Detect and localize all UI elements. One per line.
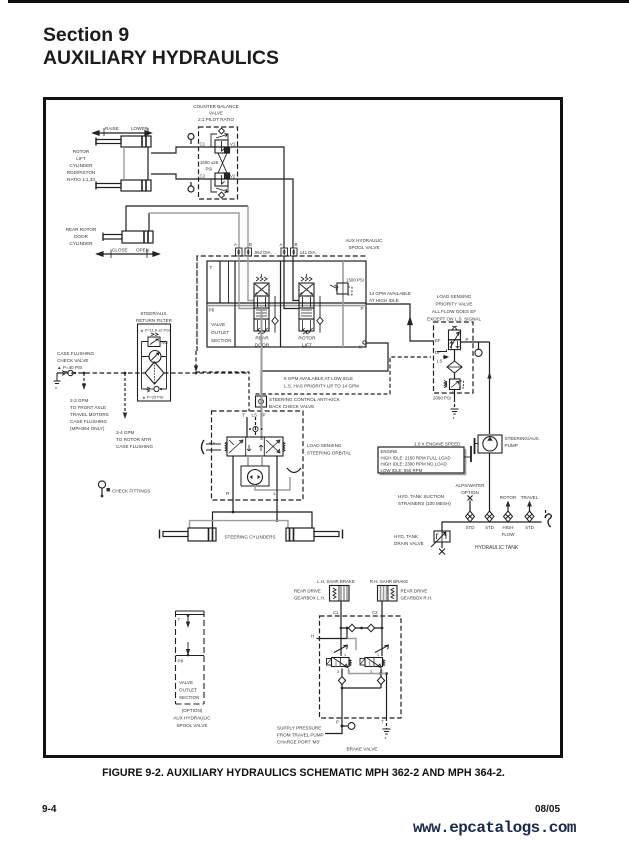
wire H gray	[347, 639, 356, 651]
svg-text:1.0 X ENGINE SPEED: 1.0 X ENGINE SPEED	[414, 442, 461, 447]
svg-text:STD: STD	[466, 525, 475, 530]
svg-text:DF: DF	[435, 350, 441, 355]
svg-text:B: B	[249, 242, 252, 247]
svg-text:LIFT: LIFT	[302, 343, 312, 349]
label A B .062 DIA	[234, 242, 272, 255]
svg-text:P8: P8	[178, 659, 184, 664]
label 14 GPM	[369, 291, 411, 303]
label case flushing check valve	[57, 351, 94, 370]
wire alps stem	[469, 501, 471, 512]
wire V1 to rotor-lift A	[238, 147, 284, 248]
svg-text:*: *	[453, 417, 455, 423]
label A B .141 DIA	[280, 242, 317, 255]
svg-text:STEER/AUX.: STEER/AUX.	[140, 311, 167, 316]
svg-text:14 GPM AVAILABLE: 14 GPM AVAILABLE	[369, 291, 411, 296]
spool rear door	[254, 274, 269, 334]
svg-text:L: L	[274, 491, 277, 496]
anti-kickback check valve	[256, 396, 267, 407]
steering wheel	[202, 440, 222, 454]
wire L to cylinders	[276, 456, 278, 521]
svg-text:CHECK FITTINGS: CHECK FITTINGS	[112, 489, 150, 494]
svg-text:C2: C2	[372, 610, 378, 615]
svg-text:ROD/PISTON: ROD/PISTON	[67, 170, 96, 175]
svg-text:R.H. SAHR BRAKE: R.H. SAHR BRAKE	[370, 579, 408, 584]
svg-text:C1: C1	[200, 142, 206, 147]
tank symbol left	[54, 373, 61, 393]
option outlet box	[176, 611, 205, 704]
svg-text:AT HIGH IDLE: AT HIGH IDLE	[369, 298, 399, 303]
svg-text:T: T	[242, 413, 245, 418]
drain branch to front axle	[82, 373, 86, 390]
solenoid valve RH pin labels	[370, 653, 383, 674]
LS port circle	[249, 426, 263, 431]
svg-text:H: H	[311, 634, 314, 639]
label hyd tank drain valve	[394, 534, 424, 546]
T column inner line	[228, 261, 230, 303]
label VALVE OUTLET SECTION	[211, 322, 231, 343]
label load sensing steering orbital	[307, 443, 352, 456]
wire C2	[381, 601, 383, 656]
svg-text:STEERING CYLINDERS: STEERING CYLINDERS	[224, 535, 275, 540]
svg-text:STEERING ORBITAL: STEERING ORBITAL	[307, 451, 352, 456]
svg-text:P: P	[336, 720, 339, 725]
port drop rear door B	[248, 256, 254, 301]
brake RH	[378, 586, 398, 602]
svg-text:CASE FLUSHING: CASE FLUSHING	[116, 444, 153, 449]
svg-text:P: P	[263, 413, 266, 418]
label steering control anti-kick	[269, 397, 341, 409]
port drop rear door A	[239, 256, 254, 309]
schematic frame	[45, 99, 562, 757]
label rear drive gearbox LH	[294, 589, 325, 601]
arrowhead drain	[194, 366, 198, 373]
wire steering P gray	[261, 306, 263, 440]
svg-text:B: B	[295, 242, 298, 247]
svg-text:STEERING/AUX.: STEERING/AUX.	[505, 436, 540, 441]
svg-text:(MPH364 ONLY): (MPH364 ONLY)	[70, 426, 105, 431]
svg-text:SECTION: SECTION	[179, 695, 199, 700]
svg-text:VALVE: VALVE	[211, 322, 225, 327]
svg-text:STD: STD	[525, 525, 534, 530]
T tank drain	[383, 718, 391, 743]
svg-text:T: T	[210, 265, 213, 270]
svg-text:C1: C1	[333, 610, 339, 615]
svg-text:ALL FLOW GOES EF: ALL FLOW GOES EF	[432, 309, 476, 314]
check valve rotor lift	[317, 296, 323, 333]
engine spec box shadow	[380, 449, 466, 475]
label CLOSE/OPEN	[112, 248, 149, 253]
plug X alps	[468, 496, 473, 501]
svg-text:REAR ROTOR: REAR ROTOR	[66, 227, 97, 232]
cylinder rotor-lift lower	[96, 180, 151, 191]
wire lift cylinder to C1	[151, 147, 199, 153]
raise/lower arrow	[93, 128, 151, 136]
wire pump suction	[489, 453, 491, 511]
svg-text:1: 1	[344, 653, 346, 657]
wire DF stub	[437, 350, 447, 352]
steering valve body	[227, 437, 283, 456]
svg-text:3-4 GPM: 3-4 GPM	[116, 430, 135, 435]
engine spec box	[378, 447, 464, 473]
solenoid valve RH	[360, 658, 385, 668]
svg-text:ROTOR: ROTOR	[500, 495, 517, 500]
cylinder rotor-lift upper	[96, 136, 151, 147]
svg-text:CHARGE PORT 'M3': CHARGE PORT 'M3'	[277, 740, 320, 745]
brake LH	[330, 586, 350, 602]
svg-text:BRAKE VALVE: BRAKE VALVE	[347, 747, 378, 752]
wire RH gray jog	[349, 668, 387, 674]
svg-text:REAR DRIVE: REAR DRIVE	[401, 589, 428, 594]
svg-text:CASE FLUSHING: CASE FLUSHING	[57, 351, 94, 356]
valve block dashed outline	[197, 256, 366, 351]
wire R to cylinders	[232, 456, 234, 512]
orifice block rotor lift	[281, 248, 297, 256]
steering cylinder left	[160, 528, 217, 541]
wire lift cylinder to C2	[151, 174, 199, 179]
svg-text:▲ P=11.6 ±2 PSI: ▲ P=11.6 ±2 PSI	[140, 328, 170, 333]
close/open arrow	[97, 250, 159, 259]
svg-text:1500 PSI: 1500 PSI	[346, 278, 364, 283]
wire supply pressure	[325, 726, 342, 734]
svg-text:LOAD SENSING: LOAD SENSING	[307, 443, 342, 448]
svg-text:HYD. TANK: HYD. TANK	[394, 534, 419, 539]
svg-text:SECTION: SECTION	[211, 338, 231, 343]
svg-text:CLOSE: CLOSE	[112, 248, 128, 253]
svg-text:ROTOR: ROTOR	[73, 149, 90, 154]
svg-text:*: *	[385, 737, 387, 743]
svg-text:STEERING CONTROL ANTI-KICK: STEERING CONTROL ANTI-KICK	[269, 397, 341, 402]
svg-text:T: T	[178, 617, 181, 622]
spool rotor lift	[299, 274, 314, 334]
pilot arc	[287, 468, 301, 473]
label STEER/AUX RETURN FILTER	[136, 311, 173, 323]
svg-text:2:1 PILOT RATIO: 2:1 PILOT RATIO	[198, 117, 234, 122]
svg-text:TO FRONT AXLE: TO FRONT AXLE	[70, 405, 106, 410]
svg-text:LS: LS	[437, 359, 442, 364]
wire pump riser	[487, 342, 491, 434]
steering valve springs	[225, 442, 285, 452]
tank line end tick	[545, 510, 547, 519]
svg-text:LOAD SENSING: LOAD SENSING	[437, 294, 472, 299]
filter bypass valve	[148, 337, 160, 347]
label valve outlet section option	[179, 680, 199, 700]
svg-text:VALVE: VALVE	[179, 680, 193, 685]
priority valve spool	[449, 327, 461, 350]
CB valve lower element	[211, 173, 230, 198]
svg-text:VALVE: VALVE	[209, 111, 223, 116]
svg-text:HYD. TANK SUCTION: HYD. TANK SUCTION	[398, 494, 444, 499]
label rear drive gearbox RH	[401, 589, 433, 601]
label T P8 option	[178, 617, 184, 664]
label counter balance valve	[193, 104, 238, 122]
CB pilot cross wires	[218, 153, 227, 173]
label P X	[359, 306, 364, 351]
T return vertical rotor lift	[280, 261, 282, 347]
X port circle	[363, 341, 366, 344]
label T LS P	[242, 413, 266, 418]
gauge port lower	[188, 182, 194, 192]
solenoid valve LH	[327, 658, 352, 668]
wire check bus	[342, 687, 381, 689]
steering cylinder right	[286, 528, 343, 541]
label alps/water option	[455, 483, 485, 495]
svg-text:2-3 GPM: 2-3 GPM	[70, 398, 89, 403]
wire door cylinder to B port	[126, 206, 248, 231]
port drop rotor lift B	[293, 256, 299, 301]
label steering/aux pump	[505, 436, 540, 448]
label STD STD HIGH FLOW STD	[466, 525, 534, 537]
label AUX HYDRAULIC SPOOL VALVE	[345, 238, 383, 250]
svg-text:NO: NO	[162, 340, 169, 345]
LS pilot arrow	[443, 355, 448, 358]
filter check valve	[147, 386, 162, 392]
svg-text:*: *	[55, 387, 57, 393]
wire C2-V2	[199, 178, 238, 180]
H bus dot	[346, 627, 349, 630]
main relief valve 1500 psi	[330, 261, 352, 347]
svg-text:(OPTION): (OPTION)	[182, 708, 203, 713]
svg-text:FROM TRAVEL PUMP: FROM TRAVEL PUMP	[277, 733, 324, 738]
svg-text:FLOW: FLOW	[502, 532, 516, 537]
svg-text:PSI: PSI	[205, 167, 212, 172]
svg-text:V1: V1	[230, 142, 236, 147]
svg-text:HIGH: HIGH	[503, 525, 514, 530]
case flushing drain line dashed	[57, 372, 249, 374]
svg-text:ENGINE: ENGINE	[381, 449, 398, 454]
label 5 GPM available	[284, 376, 359, 389]
svg-text:TRAVEL MOTORS: TRAVEL MOTORS	[70, 412, 109, 417]
svg-text:CHECK VALVE: CHECK VALVE	[57, 358, 89, 363]
valve block body	[207, 261, 366, 347]
svg-text:LOW IDLE: 850 RPM: LOW IDLE: 850 RPM	[381, 468, 423, 473]
svg-text:ROTOR: ROTOR	[298, 336, 316, 342]
svg-text:P: P	[466, 337, 469, 342]
wire LH valve to P	[341, 669, 343, 727]
label RAISE/LOWER	[105, 126, 149, 131]
svg-text:DOOR: DOOR	[74, 234, 88, 239]
svg-text:HYDRAULIC TANK: HYDRAULIC TANK	[475, 545, 519, 551]
wire door cylinder to A port	[148, 213, 150, 231]
engine spec text	[381, 449, 451, 473]
P8 gallery gray	[207, 305, 366, 307]
flow arrow C2	[375, 645, 388, 652]
svg-text:LOWER: LOWER	[131, 126, 149, 131]
orifice block rear door	[236, 248, 252, 256]
wire door A drop	[149, 213, 239, 248]
svg-text:RATIO 1:1,33: RATIO 1:1,33	[67, 177, 95, 182]
svg-text:A: A	[234, 242, 237, 247]
solenoid valve LH pin labels	[337, 653, 350, 674]
svg-text:HIGH IDLE: 2150 RPM FULL LOAD: HIGH IDLE: 2150 RPM FULL LOAD	[381, 455, 451, 460]
label C1 C2	[333, 610, 378, 615]
wire door B drop	[247, 206, 249, 248]
wire RH valve drop	[380, 669, 382, 689]
brake valve dashed box	[320, 616, 402, 718]
svg-text:1: 1	[377, 653, 379, 657]
label option aux hydraulic spool valve	[173, 708, 211, 728]
svg-text:SUPPLY PRESSURE: SUPPLY PRESSURE	[277, 726, 321, 731]
wire P to EF	[366, 304, 433, 341]
drain branch to rotor motor	[123, 373, 127, 419]
label P T	[336, 720, 384, 725]
svg-text:PRIORITY VALVE: PRIORITY VALVE	[435, 302, 472, 307]
svg-text:A: A	[280, 242, 283, 247]
priority filter diamond	[447, 350, 462, 373]
label rotor travel	[500, 495, 539, 500]
svg-text:.062 DIA.: .062 DIA.	[254, 250, 272, 255]
svg-text:PUMP: PUMP	[505, 443, 518, 448]
tank hook glyph	[545, 514, 551, 527]
label ROTOR LIFT	[298, 336, 316, 349]
rotor arrow	[506, 501, 511, 512]
svg-text:3: 3	[337, 670, 339, 674]
svg-text:AUX HYDRAULIC: AUX HYDRAULIC	[173, 716, 211, 721]
T port column	[219, 261, 221, 303]
label REAR DOOR	[255, 336, 270, 349]
P8 gallery	[207, 302, 366, 304]
label REAR ROTOR DOOR CYLINDER	[66, 227, 97, 246]
counter balance valve box	[199, 127, 238, 199]
priority relief 2000 psi	[444, 373, 464, 390]
wire X port return	[261, 343, 388, 425]
wire V2 to rotor-lift B	[238, 179, 293, 248]
label ROTOR LIFT CYLINDER	[67, 149, 96, 182]
label supply pressure	[277, 726, 324, 745]
cylinder rear door	[103, 231, 153, 243]
P junction dot	[341, 725, 344, 728]
junction L	[276, 519, 279, 522]
wire cylinder bus lower	[190, 521, 289, 528]
svg-text:ALPS/WATER: ALPS/WATER	[455, 483, 485, 488]
wire between lift cylinders	[123, 147, 125, 180]
wire H port	[317, 628, 348, 639]
svg-text:R: R	[226, 491, 230, 496]
P gauge circle	[475, 342, 482, 356]
shuttle check left	[348, 624, 355, 632]
svg-text:LIFT: LIFT	[76, 156, 86, 161]
hyd tank drain valve	[431, 531, 450, 555]
svg-text:AUX HYDRAULIC: AUX HYDRAULIC	[345, 238, 383, 243]
junction dots brake	[341, 672, 388, 689]
wire cylinder bus upper	[213, 512, 313, 528]
svg-text:2000 PSI: 2000 PSI	[433, 396, 451, 401]
svg-text:CYLINDER: CYLINDER	[69, 241, 93, 246]
svg-text:STD: STD	[485, 525, 494, 530]
steering orbital dashed box	[212, 411, 304, 500]
svg-text:CYLINDER: CYLINDER	[69, 163, 93, 168]
gauge port upper	[188, 134, 194, 145]
svg-text:STRAINERS (100 MESH): STRAINERS (100 MESH)	[398, 501, 451, 506]
travel arrow	[527, 501, 532, 512]
svg-text:BACK CHECK VALVE: BACK CHECK VALVE	[269, 404, 314, 409]
svg-text:DRAIN VALVE: DRAIN VALVE	[394, 541, 424, 546]
drive shaft coupling	[464, 438, 478, 462]
wire LS dashed loop	[256, 357, 432, 394]
pump steering/aux	[478, 435, 502, 453]
gerotor assembly	[241, 456, 290, 490]
CB valve upper element	[211, 128, 230, 153]
svg-text:RAISE: RAISE	[105, 126, 119, 131]
svg-text:T: T	[381, 720, 384, 725]
svg-text:.141 DIA.: .141 DIA.	[299, 250, 317, 255]
label load sensing priority valve	[427, 294, 481, 322]
port drop rotor lift A	[284, 256, 299, 309]
svg-text:C2: C2	[200, 174, 206, 179]
svg-text:▲ P=40 PSI: ▲ P=40 PSI	[57, 365, 82, 370]
svg-text:RETURN FILTER: RETURN FILTER	[136, 318, 173, 323]
wire C1-V1	[199, 146, 238, 148]
priority valve dashed box	[434, 322, 474, 393]
svg-text:TRAVEL: TRAVEL	[521, 495, 539, 500]
svg-text:OPEN: OPEN	[136, 248, 149, 253]
svg-text:COUNTER BALANCE: COUNTER BALANCE	[193, 104, 238, 109]
junction dots on drain line	[83, 372, 198, 375]
wire priority P to pump riser	[461, 341, 490, 343]
flow arrow C1	[334, 645, 347, 652]
wire between lift cylinders 2	[147, 147, 149, 180]
svg-text:REAR DRIVE: REAR DRIVE	[294, 589, 321, 594]
priority tank drain	[451, 390, 459, 424]
filter side rails	[142, 342, 167, 390]
svg-text:LS: LS	[252, 413, 258, 418]
wire C1	[340, 601, 342, 656]
labels CB ports	[200, 142, 236, 179]
T return vertical rear door	[234, 261, 236, 347]
svg-text:SPOOL VALVE: SPOOL VALVE	[176, 723, 207, 728]
wire T drop	[386, 674, 388, 719]
svg-text:L.S. HAS PRIORITY UP TO 14 GPM: L.S. HAS PRIORITY UP TO 14 GPM	[284, 384, 359, 389]
svg-text:EXCEPT ON L.S. SIGNAL: EXCEPT ON L.S. SIGNAL	[427, 317, 481, 322]
label 2-3 gpm	[70, 398, 109, 431]
label R L	[226, 491, 277, 496]
junction R	[232, 511, 235, 514]
svg-text:▲ P=25 PSI: ▲ P=25 PSI	[142, 395, 163, 400]
svg-text:OUTLET: OUTLET	[179, 688, 197, 693]
svg-text:TO ROTOR MTR: TO ROTOR MTR	[116, 437, 152, 442]
priority valve port labels	[435, 337, 469, 364]
shuttle bus	[340, 627, 384, 630]
label 3-4 gpm	[116, 430, 153, 449]
svg-text:CASE FLUSHING: CASE FLUSHING	[70, 419, 107, 424]
svg-text:1500 ±25: 1500 ±25	[200, 160, 219, 165]
svg-text:HIGH IDLE: 2300 RPM NO LOAD: HIGH IDLE: 2300 RPM NO LOAD	[381, 462, 447, 467]
svg-text:OPTION: OPTION	[461, 490, 479, 495]
suction strainers	[466, 511, 535, 522]
check valve rear door	[272, 296, 278, 333]
svg-text:P8: P8	[209, 308, 215, 313]
label 1500 psi	[200, 160, 219, 172]
filter bypass spring	[151, 333, 158, 336]
check RH	[377, 677, 384, 685]
P gauge circle	[342, 723, 355, 730]
svg-text:V2: V2	[230, 174, 236, 179]
svg-text:P: P	[361, 306, 364, 312]
svg-text:5 GPM AVAILABLE AT LOW IDLE: 5 GPM AVAILABLE AT LOW IDLE	[284, 376, 353, 381]
return filter box	[138, 324, 171, 401]
filter gauge circle	[149, 351, 161, 363]
shuttle check right	[367, 624, 374, 632]
svg-text:EF: EF	[435, 338, 441, 343]
label hyd tank suction strainers	[398, 494, 451, 506]
check fittings symbol	[98, 481, 110, 498]
svg-text:L.H. SAHR BRAKE: L.H. SAHR BRAKE	[317, 579, 355, 584]
svg-text:GEARBOX R.H.: GEARBOX R.H.	[401, 596, 433, 601]
case flushing check valve	[62, 370, 76, 375]
wire tank-return dashed from valve block	[196, 351, 249, 411]
svg-text:OUTLET: OUTLET	[211, 330, 229, 335]
wire steering T	[246, 417, 248, 437]
svg-text:SPOOL VALVE: SPOOL VALVE	[348, 245, 379, 250]
